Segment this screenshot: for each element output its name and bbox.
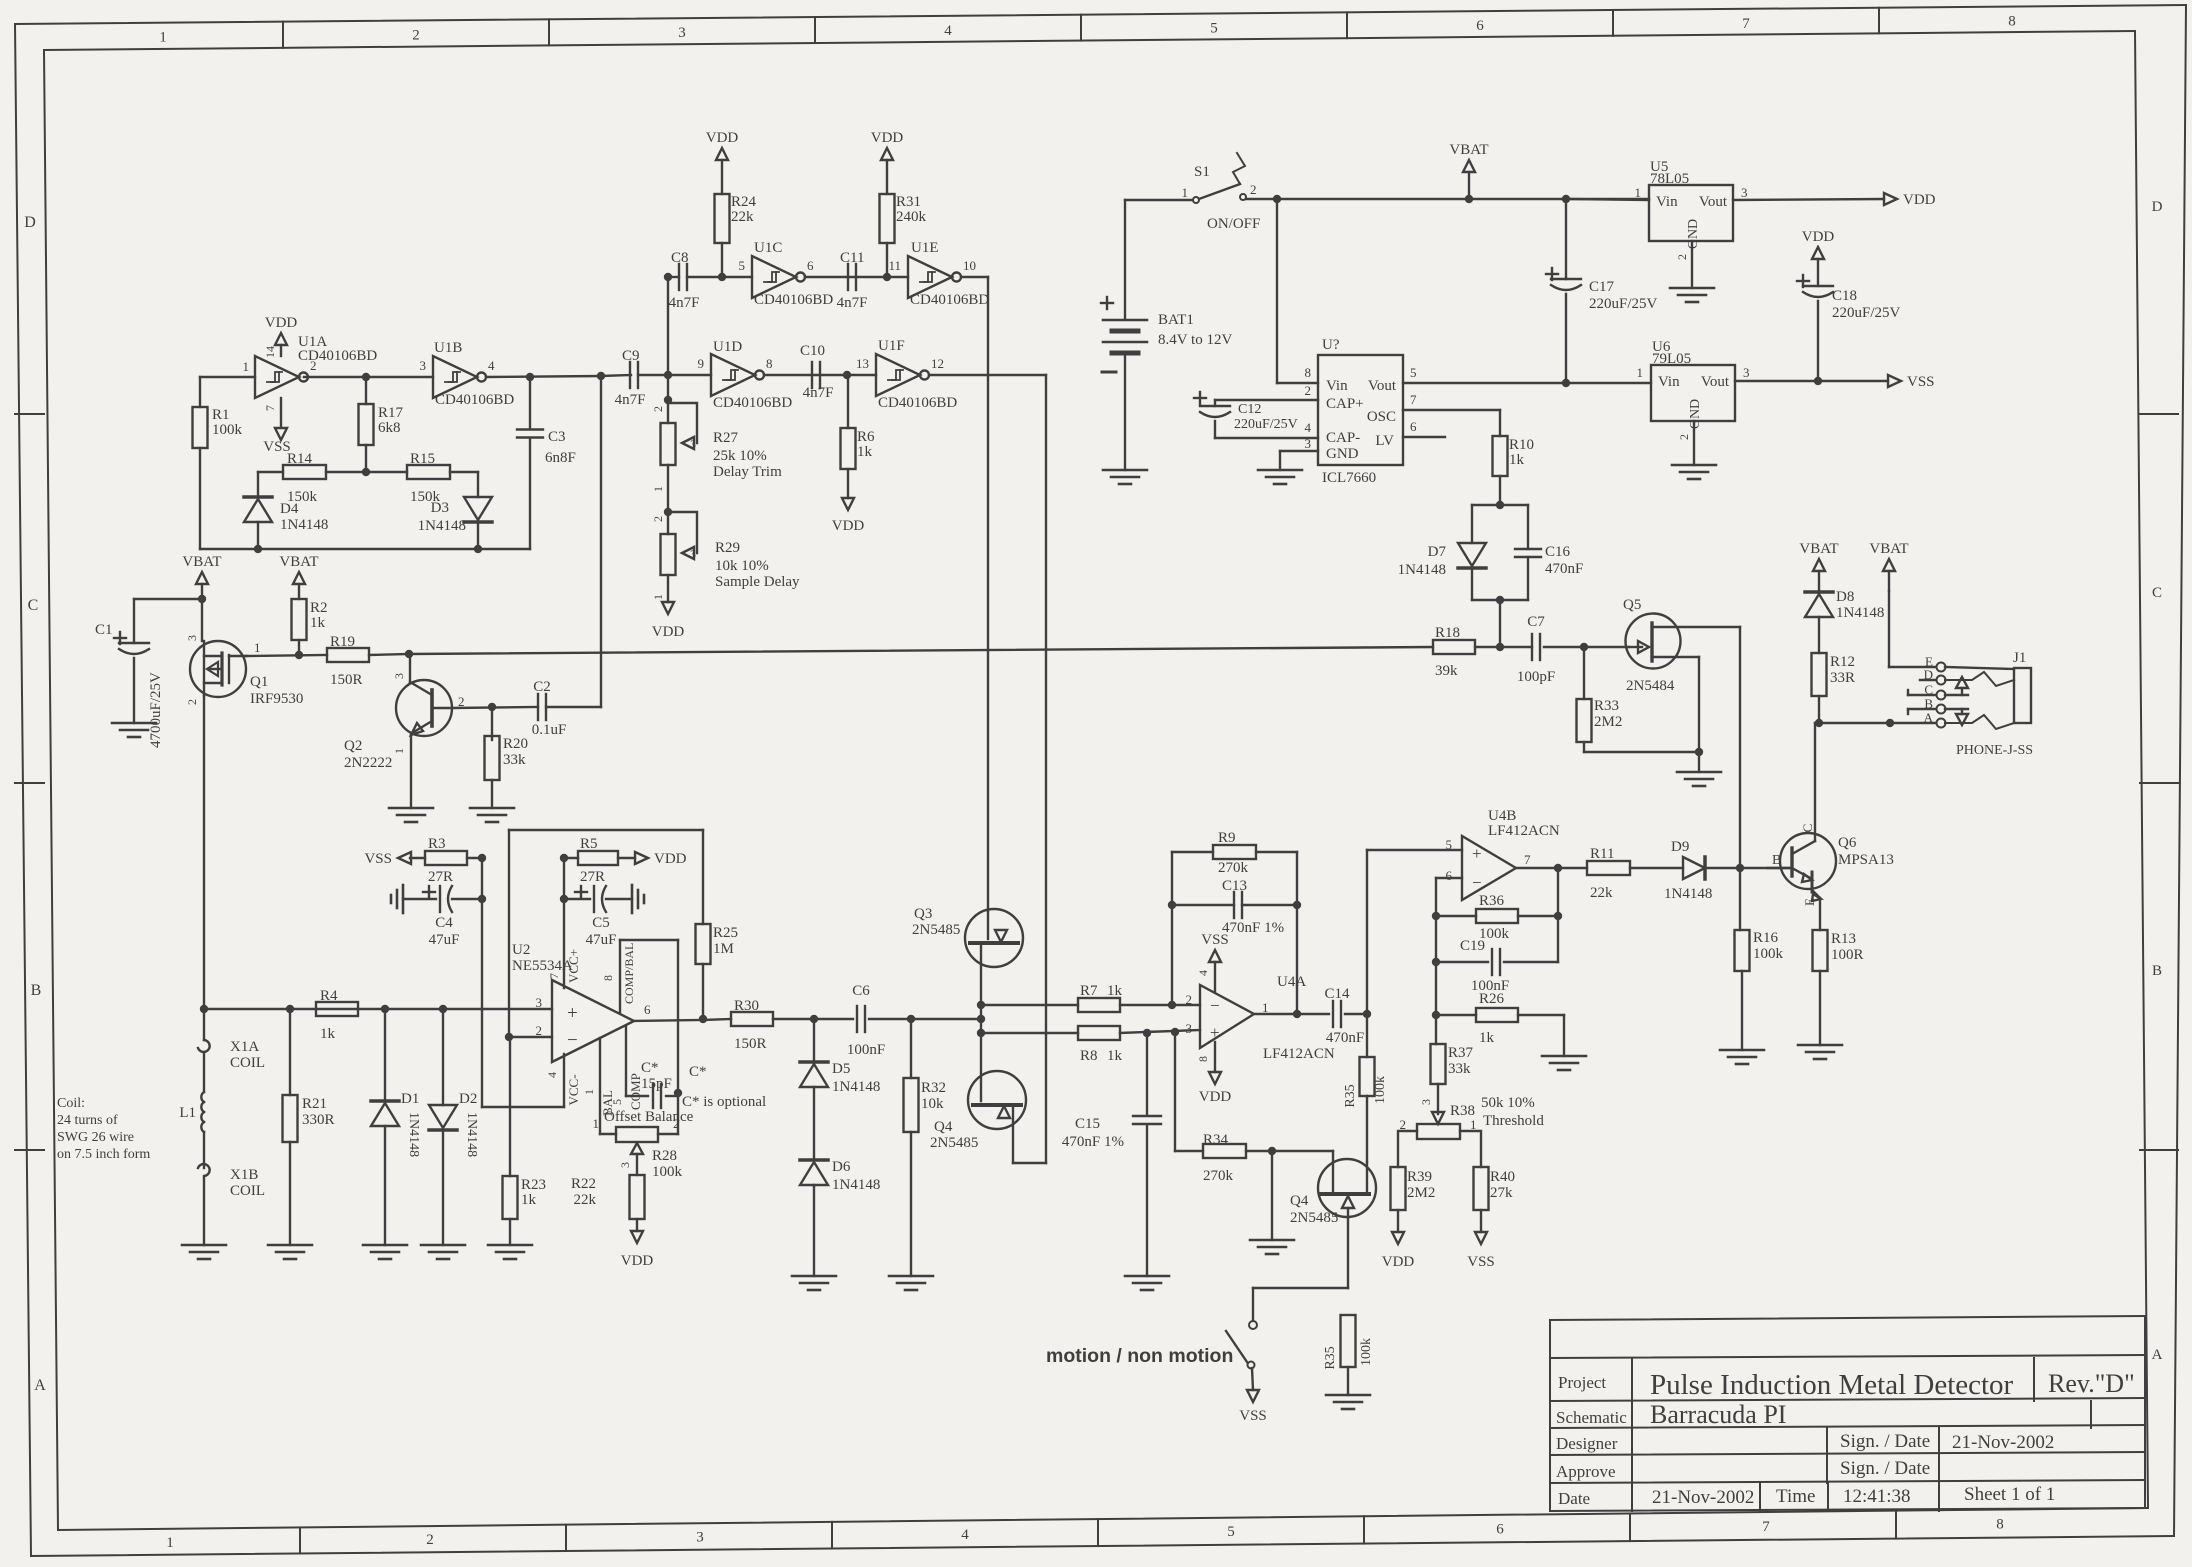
svg-text:3: 3: [690, 547, 696, 561]
svg-text:Vout: Vout: [1368, 378, 1397, 394]
svg-text:10k 10%: 10k 10%: [715, 558, 769, 574]
svg-text:11: 11: [888, 258, 901, 273]
svg-text:C7: C7: [1527, 614, 1545, 630]
svg-text:ICL7660: ICL7660: [1322, 470, 1376, 486]
svg-text:13: 13: [856, 356, 869, 371]
svg-text:R22: R22: [571, 1176, 596, 1192]
svg-text:4: 4: [961, 1527, 969, 1543]
svg-text:CD40106BD: CD40106BD: [298, 348, 377, 364]
svg-text:5: 5: [610, 1099, 624, 1105]
svg-text:C9: C9: [622, 348, 640, 364]
svg-text:COIL: COIL: [230, 1183, 265, 1199]
svg-text:6: 6: [1496, 1522, 1504, 1538]
svg-text:2: 2: [1250, 182, 1257, 197]
svg-text:Q4: Q4: [1290, 1193, 1309, 1209]
svg-text:1k: 1k: [1107, 983, 1123, 999]
svg-text:+: +: [1472, 844, 1482, 863]
svg-text:2: 2: [651, 516, 665, 522]
svg-text:3: 3: [185, 635, 199, 641]
svg-text:1N4148: 1N4148: [464, 1112, 479, 1157]
svg-text:A: A: [2152, 1347, 2163, 1363]
svg-text:5: 5: [1210, 21, 1218, 37]
svg-text:VBAT: VBAT: [1799, 541, 1838, 557]
svg-text:2: 2: [651, 406, 665, 412]
svg-text:12: 12: [931, 356, 944, 371]
svg-text:39k: 39k: [1435, 663, 1458, 679]
svg-text:R35: R35: [1343, 1084, 1358, 1107]
svg-text:1k: 1k: [857, 444, 873, 460]
svg-text:1N4148: 1N4148: [406, 1112, 421, 1157]
svg-text:1N4148: 1N4148: [1836, 605, 1884, 621]
svg-text:4n7F: 4n7F: [803, 385, 834, 401]
svg-text:47uF: 47uF: [586, 932, 617, 948]
svg-text:VDD: VDD: [1199, 1089, 1232, 1105]
svg-text:2: 2: [1305, 383, 1312, 398]
svg-text:LF412ACN: LF412ACN: [1488, 823, 1560, 839]
svg-text:BAT1: BAT1: [1158, 312, 1194, 328]
svg-text:motion / non motion: motion / non motion: [1046, 1345, 1233, 1367]
svg-text:VDD: VDD: [706, 130, 739, 146]
svg-text:U?: U?: [1322, 337, 1340, 353]
svg-text:8: 8: [1196, 1056, 1210, 1062]
svg-text:2: 2: [673, 1116, 680, 1131]
svg-text:220uF/25V: 220uF/25V: [1832, 305, 1901, 321]
svg-text:1N4148: 1N4148: [832, 1079, 880, 1095]
svg-text:C18: C18: [1832, 288, 1857, 304]
svg-text:VDD: VDD: [621, 1253, 654, 1269]
svg-text:R34: R34: [1203, 1132, 1229, 1148]
svg-text:4: 4: [488, 358, 495, 373]
svg-text:8: 8: [2008, 14, 2016, 30]
svg-text:1M: 1M: [713, 941, 734, 957]
svg-text:4: 4: [944, 23, 952, 39]
svg-text:1: 1: [593, 1116, 600, 1131]
svg-text:CAP+: CAP+: [1326, 396, 1364, 412]
svg-text:C2: C2: [533, 679, 551, 695]
svg-text:C8: C8: [671, 250, 689, 266]
svg-text:R17: R17: [378, 405, 404, 421]
svg-text:8: 8: [766, 356, 773, 371]
svg-text:R8: R8: [1080, 1048, 1098, 1064]
svg-text:U2: U2: [512, 942, 530, 958]
svg-text:Barracuda PI: Barracuda PI: [1650, 1400, 1786, 1429]
svg-text:U4B: U4B: [1488, 808, 1516, 824]
svg-text:2: 2: [536, 1023, 543, 1038]
svg-text:220uF/25V: 220uF/25V: [1234, 417, 1298, 432]
svg-text:6: 6: [1446, 868, 1453, 883]
svg-text:C1: C1: [95, 622, 113, 638]
svg-text:33R: 33R: [1830, 670, 1855, 686]
svg-text:1: 1: [1635, 185, 1642, 200]
svg-text:D7: D7: [1428, 544, 1447, 560]
svg-text:14: 14: [263, 346, 277, 358]
svg-text:4n7F: 4n7F: [837, 295, 868, 311]
svg-text:33k: 33k: [1448, 1061, 1471, 1077]
svg-text:C16: C16: [1545, 544, 1571, 560]
svg-text:R12: R12: [1830, 654, 1855, 670]
svg-text:VDD: VDD: [1903, 192, 1936, 208]
svg-text:2: 2: [185, 699, 199, 705]
svg-text:0.1uF: 0.1uF: [532, 722, 567, 738]
svg-text:2: 2: [426, 1532, 434, 1548]
svg-text:VSS: VSS: [1467, 1254, 1495, 1270]
svg-text:1N4148: 1N4148: [1398, 562, 1446, 578]
svg-text:27R: 27R: [428, 869, 453, 885]
svg-text:R29: R29: [715, 540, 740, 556]
svg-text:7: 7: [1410, 392, 1417, 407]
svg-text:1: 1: [159, 30, 167, 46]
svg-text:Q5: Q5: [1623, 597, 1641, 613]
svg-text:CD40106BD: CD40106BD: [713, 395, 792, 411]
svg-text:R19: R19: [330, 634, 355, 650]
svg-text:C15: C15: [1075, 1116, 1100, 1132]
svg-text:B: B: [2152, 963, 2162, 979]
svg-text:21-Nov-2002: 21-Nov-2002: [1952, 1432, 2054, 1453]
svg-text:1: 1: [166, 1535, 174, 1551]
svg-text:6n8F: 6n8F: [545, 450, 576, 466]
svg-text:Time: Time: [1776, 1486, 1815, 1507]
svg-text:Q3: Q3: [914, 906, 932, 922]
svg-text:3: 3: [690, 437, 696, 451]
svg-text:VCC-: VCC-: [566, 1074, 581, 1105]
svg-text:D2: D2: [459, 1091, 477, 1107]
svg-text:3: 3: [678, 25, 686, 41]
svg-text:22k: 22k: [574, 1192, 597, 1208]
svg-text:Vout: Vout: [1701, 374, 1730, 390]
svg-text:4n7F: 4n7F: [669, 295, 700, 311]
svg-text:21-Nov-2002: 21-Nov-2002: [1652, 1487, 1754, 1508]
svg-text:9: 9: [698, 356, 705, 371]
svg-text:R15: R15: [410, 451, 435, 467]
svg-text:VDD: VDD: [1382, 1254, 1415, 1270]
svg-text:R23: R23: [521, 1177, 546, 1193]
svg-text:VSS: VSS: [1239, 1408, 1267, 1424]
svg-text:GND: GND: [1686, 219, 1701, 249]
svg-text:6k8: 6k8: [378, 420, 401, 436]
svg-text:1k: 1k: [320, 1026, 336, 1042]
svg-text:on 7.5 inch form: on 7.5 inch form: [57, 1147, 150, 1162]
svg-text:470nF 1%: 470nF 1%: [1062, 1134, 1124, 1150]
svg-text:R9: R9: [1218, 830, 1236, 846]
svg-text:1N4148: 1N4148: [280, 517, 328, 533]
svg-text:2M2: 2M2: [1594, 714, 1622, 730]
svg-text:CD40106BD: CD40106BD: [910, 292, 989, 308]
svg-text:2: 2: [1675, 254, 1689, 260]
svg-text:8: 8: [1996, 1517, 2004, 1533]
svg-text:VDD: VDD: [832, 518, 865, 534]
svg-text:6: 6: [1410, 419, 1417, 434]
svg-text:VBAT: VBAT: [1869, 541, 1908, 557]
svg-text:ON/OFF: ON/OFF: [1207, 216, 1260, 232]
svg-text:D5: D5: [832, 1061, 850, 1077]
svg-text:1k: 1k: [521, 1192, 537, 1208]
svg-text:X1B: X1B: [230, 1167, 258, 1183]
svg-text:2: 2: [412, 27, 420, 43]
svg-text:R32: R32: [921, 1080, 946, 1096]
svg-text:R3: R3: [428, 836, 446, 852]
svg-text:R24: R24: [731, 194, 757, 210]
svg-text:15pF: 15pF: [641, 1076, 672, 1092]
svg-text:C*: C*: [689, 1064, 707, 1080]
svg-text:GND: GND: [1688, 399, 1703, 429]
svg-text:R10: R10: [1509, 437, 1534, 453]
svg-text:Offset Balance: Offset Balance: [604, 1109, 694, 1125]
svg-text:Pulse Induction Metal Detector: Pulse Induction Metal Detector: [1650, 1369, 2014, 1401]
svg-text:1: 1: [1262, 1000, 1269, 1015]
svg-text:2: 2: [1186, 992, 1193, 1007]
svg-text:330R: 330R: [302, 1112, 335, 1128]
svg-text:3: 3: [1419, 1099, 1433, 1105]
svg-text:8.4V to 12V: 8.4V to 12V: [1158, 332, 1232, 348]
svg-text:VBAT: VBAT: [1449, 142, 1488, 158]
svg-text:R33: R33: [1594, 698, 1619, 714]
svg-text:R11: R11: [1590, 846, 1614, 862]
svg-text:Coil:: Coil:: [57, 1096, 85, 1111]
svg-text:8: 8: [1305, 365, 1312, 380]
svg-text:VDD: VDD: [654, 851, 687, 867]
svg-text:U1C: U1C: [754, 240, 782, 256]
svg-text:D6: D6: [832, 1159, 851, 1175]
svg-text:CAP-: CAP-: [1326, 430, 1360, 446]
svg-text:Date: Date: [1558, 1489, 1590, 1508]
svg-text:1: 1: [1470, 1117, 1477, 1132]
svg-text:IRF9530: IRF9530: [250, 691, 303, 707]
svg-text:+: +: [567, 1003, 578, 1024]
svg-text:COIL: COIL: [230, 1055, 265, 1071]
svg-text:7: 7: [263, 405, 277, 411]
svg-text:27R: 27R: [580, 869, 605, 885]
svg-text:C6: C6: [852, 983, 870, 999]
svg-text:R18: R18: [1435, 625, 1460, 641]
svg-text:Delay Trim: Delay Trim: [713, 464, 782, 480]
svg-text:3: 3: [392, 673, 406, 679]
svg-text:5: 5: [1446, 837, 1453, 852]
svg-text:3: 3: [1743, 365, 1750, 380]
svg-text:A: A: [34, 1377, 46, 1394]
svg-text:OSC: OSC: [1367, 409, 1396, 425]
svg-text:CD40106BD: CD40106BD: [435, 392, 514, 408]
svg-text:R6: R6: [857, 429, 875, 445]
svg-text:C11: C11: [840, 250, 864, 266]
svg-text:150R: 150R: [734, 1036, 767, 1052]
svg-text:1: 1: [392, 748, 406, 754]
svg-text:Approve: Approve: [1556, 1462, 1615, 1481]
svg-text:LF412ACN: LF412ACN: [1263, 1046, 1335, 1062]
svg-text:2N5485: 2N5485: [912, 922, 960, 938]
svg-text:R7: R7: [1080, 983, 1098, 999]
svg-text:100pF: 100pF: [1517, 669, 1555, 685]
svg-text:C: C: [2152, 585, 2162, 601]
svg-text:Sheet 1 of 1: Sheet 1 of 1: [1964, 1484, 2055, 1505]
svg-text:R31: R31: [896, 194, 921, 210]
svg-text:Vin: Vin: [1658, 374, 1680, 390]
svg-text:R4: R4: [320, 988, 338, 1004]
svg-text:R27: R27: [713, 430, 739, 446]
svg-text:47uF: 47uF: [429, 932, 460, 948]
svg-text:R40: R40: [1490, 1169, 1515, 1185]
svg-text:R37: R37: [1448, 1045, 1474, 1061]
svg-text:2N5485: 2N5485: [1290, 1210, 1338, 1226]
svg-text:6: 6: [807, 258, 814, 273]
svg-text:100R: 100R: [1831, 947, 1864, 963]
svg-text:3: 3: [536, 995, 543, 1010]
svg-text:R2: R2: [310, 600, 328, 616]
svg-text:Project: Project: [1558, 1373, 1606, 1392]
svg-text:79L05: 79L05: [1652, 351, 1691, 367]
svg-text:C14: C14: [1324, 986, 1350, 1002]
svg-text:PHONE-J-SS: PHONE-J-SS: [1956, 743, 2033, 758]
svg-text:C4: C4: [435, 915, 453, 931]
svg-text:33k: 33k: [503, 752, 526, 768]
svg-text:C* is optional: C* is optional: [682, 1094, 766, 1110]
svg-text:12:41:38: 12:41:38: [1843, 1486, 1911, 1507]
svg-text:D8: D8: [1836, 589, 1854, 605]
svg-text:VBAT: VBAT: [182, 554, 221, 570]
svg-text:C17: C17: [1589, 279, 1615, 295]
svg-text:B: B: [31, 982, 42, 999]
svg-text:1: 1: [651, 594, 665, 600]
svg-text:Schematic: Schematic: [1556, 1408, 1627, 1427]
svg-text:R16: R16: [1753, 930, 1779, 946]
svg-text:VBAT: VBAT: [279, 554, 318, 570]
svg-text:1: 1: [1637, 365, 1644, 380]
svg-text:2: 2: [1400, 1117, 1407, 1132]
svg-text:R14: R14: [287, 451, 313, 467]
svg-text:3: 3: [1186, 1021, 1193, 1036]
svg-text:Q1: Q1: [250, 674, 268, 690]
svg-text:R30: R30: [734, 998, 759, 1014]
svg-text:1: 1: [651, 486, 665, 492]
svg-text:NE5534A: NE5534A: [512, 958, 573, 974]
svg-text:VSS: VSS: [1907, 374, 1935, 390]
svg-text:4: 4: [545, 1072, 559, 1078]
svg-text:S1: S1: [1194, 164, 1210, 180]
svg-text:U4A: U4A: [1277, 974, 1306, 990]
svg-text:U1D: U1D: [713, 339, 742, 355]
svg-text:1k: 1k: [1479, 1030, 1495, 1046]
svg-text:D4: D4: [280, 501, 299, 517]
svg-text:7: 7: [1524, 852, 1531, 867]
svg-text:3: 3: [1305, 436, 1312, 451]
svg-text:270k: 270k: [1218, 860, 1249, 876]
svg-text:10: 10: [963, 258, 976, 273]
svg-text:4: 4: [1196, 970, 1210, 976]
svg-text:D9: D9: [1671, 839, 1689, 855]
svg-text:CD40106BD: CD40106BD: [878, 395, 957, 411]
svg-text:Threshold: Threshold: [1483, 1113, 1544, 1129]
svg-text:27k: 27k: [1490, 1185, 1513, 1201]
svg-text:4: 4: [1305, 420, 1312, 435]
svg-text:7: 7: [1762, 1519, 1770, 1535]
svg-text:1: 1: [243, 359, 250, 374]
svg-text:CD40106BD: CD40106BD: [754, 292, 833, 308]
svg-text:4n7F: 4n7F: [615, 392, 646, 408]
svg-text:Vin: Vin: [1656, 194, 1678, 210]
svg-text:E: E: [1802, 898, 1817, 906]
svg-text:470nF: 470nF: [1545, 561, 1583, 577]
svg-text:220uF/25V: 220uF/25V: [1589, 296, 1658, 312]
svg-text:2: 2: [1677, 434, 1691, 440]
svg-text:C12: C12: [1238, 402, 1261, 417]
svg-text:1: 1: [1182, 185, 1189, 200]
svg-text:COMP/BAL: COMP/BAL: [622, 943, 636, 1004]
svg-text:D: D: [2152, 199, 2163, 215]
svg-text:1k: 1k: [310, 615, 326, 631]
svg-text:R36: R36: [1479, 893, 1505, 909]
svg-text:1N4148: 1N4148: [832, 1177, 880, 1193]
svg-text:5: 5: [1410, 365, 1417, 380]
svg-text:−: −: [1472, 873, 1482, 892]
svg-text:3: 3: [618, 1162, 632, 1168]
svg-text:C13: C13: [1222, 878, 1247, 894]
svg-text:4700uF/25V: 4700uF/25V: [148, 672, 164, 748]
svg-text:2N2222: 2N2222: [344, 755, 392, 771]
svg-text:10k: 10k: [921, 1096, 944, 1112]
svg-text:U1B: U1B: [434, 340, 462, 356]
svg-text:U1F: U1F: [878, 338, 905, 354]
svg-text:Designer: Designer: [1556, 1434, 1618, 1453]
svg-text:1: 1: [254, 640, 261, 655]
svg-text:VSS: VSS: [364, 851, 392, 867]
svg-text:D3: D3: [431, 500, 449, 516]
svg-text:100k: 100k: [212, 422, 243, 438]
svg-text:C*: C*: [641, 1060, 659, 1076]
svg-text:2N5485: 2N5485: [930, 1135, 978, 1151]
svg-text:VDD: VDD: [652, 624, 685, 640]
svg-text:Q6: Q6: [1838, 835, 1857, 851]
svg-text:3: 3: [1741, 185, 1748, 200]
svg-text:C10: C10: [800, 343, 825, 359]
svg-text:A: A: [1924, 710, 1934, 725]
svg-text:R28: R28: [652, 1148, 677, 1164]
svg-text:Q2: Q2: [344, 738, 362, 754]
svg-text:470nF: 470nF: [1326, 1030, 1364, 1046]
svg-text:VDD: VDD: [265, 315, 298, 331]
svg-text:6: 6: [644, 1002, 651, 1017]
svg-text:24 turns of: 24 turns of: [57, 1113, 118, 1128]
svg-text:LV: LV: [1375, 433, 1394, 449]
svg-text:−: −: [1210, 996, 1220, 1015]
svg-text:100k: 100k: [1373, 1076, 1388, 1104]
svg-text:25k 10%: 25k 10%: [713, 448, 767, 464]
svg-text:+: +: [1210, 1023, 1220, 1042]
svg-text:3: 3: [420, 358, 427, 373]
svg-text:100k: 100k: [652, 1164, 683, 1180]
svg-text:1k: 1k: [1107, 1048, 1123, 1064]
svg-text:C3: C3: [548, 429, 566, 445]
svg-text:R5: R5: [580, 836, 598, 852]
svg-text:5: 5: [739, 258, 746, 273]
svg-text:Sign. / Date: Sign. / Date: [1840, 1431, 1930, 1452]
svg-text:C: C: [28, 597, 39, 614]
svg-text:R1: R1: [212, 407, 230, 423]
svg-text:D: D: [24, 214, 36, 231]
svg-text:C19: C19: [1460, 938, 1485, 954]
svg-text:X1A: X1A: [230, 1039, 259, 1055]
svg-text:Vin: Vin: [1326, 378, 1348, 394]
svg-text:100k: 100k: [1359, 1338, 1374, 1366]
svg-text:150R: 150R: [330, 672, 363, 688]
svg-text:2N5484: 2N5484: [1626, 678, 1675, 694]
svg-text:C5: C5: [592, 915, 610, 931]
svg-text:470nF 1%: 470nF 1%: [1222, 920, 1284, 936]
svg-text:1N4148: 1N4148: [418, 518, 466, 534]
svg-text:R26: R26: [1479, 991, 1505, 1007]
svg-text:100k: 100k: [1753, 946, 1784, 962]
svg-text:VDD: VDD: [871, 130, 904, 146]
svg-text:SWG 26 wire: SWG 26 wire: [57, 1130, 134, 1145]
svg-text:R25: R25: [713, 925, 738, 941]
